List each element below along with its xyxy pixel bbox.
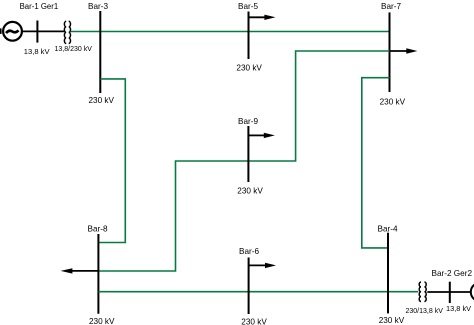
wire line B1: Bar-7 to Bar-9 — [248, 51, 389, 161]
bus Bar-7 — [389, 12, 391, 92]
svg-text:Bar-7: Bar-7 — [381, 2, 401, 11]
svg-text:Bar-2 Ger2: Bar-2 Ger2 — [432, 269, 473, 278]
bus Bar-1 — [36, 21, 38, 43]
transformer T1 winding left — [64, 21, 66, 43]
svg-text:230 kV: 230 kV — [379, 316, 405, 325]
bus Bar-5 — [248, 12, 250, 60]
bus Bar-6 — [248, 258, 250, 315]
svg-text:13,8 kV: 13,8 kV — [24, 47, 51, 56]
generator G2 (Ger2, clipped at right edge) — [471, 283, 474, 301]
svg-text:Bar-4: Bar-4 — [378, 225, 398, 234]
svg-text:230 kV: 230 kV — [236, 64, 262, 73]
transformer T2 winding left — [419, 282, 421, 302]
wire Bar-2 to generator G2 — [450, 291, 471, 293]
svg-text:230 kV: 230 kV — [89, 317, 115, 325]
bus Bar-9 — [247, 126, 249, 182]
wire line E: Bar-8 to transformer T2 through Bar-6 and Bar-4 — [98, 291, 418, 293]
bus Bar-3 — [99, 11, 101, 93]
wire line A: T1 to Bar-7 through Bar-3 and Bar-5 (230 kV) — [71, 31, 390, 33]
wire line C: Bar-3 to Bar-8 — [98, 79, 125, 243]
svg-text:Bar-1 Ger1: Bar-1 Ger1 — [20, 2, 59, 11]
transformer T1 winding right — [69, 21, 71, 43]
wire line B2: Bar-9 to Bar-8 — [98, 161, 248, 271]
svg-text:13,8/230 kV: 13,8/230 kV — [55, 46, 93, 53]
bus Bar-2 — [449, 282, 451, 303]
svg-text:Bar-8: Bar-8 — [88, 225, 108, 234]
svg-text:Bar-3: Bar-3 — [88, 2, 108, 11]
svg-text:Bar-5: Bar-5 — [238, 2, 258, 11]
svg-text:230/13,8 kV: 230/13,8 kV — [406, 308, 444, 315]
svg-text:13,8 kV: 13,8 kV — [446, 304, 471, 313]
svg-text:230 kV: 230 kV — [241, 318, 267, 325]
svg-text:Bar-6: Bar-6 — [239, 247, 259, 256]
wire G1 to transformer T1 — [22, 30, 65, 32]
svg-text:230 kV: 230 kV — [380, 97, 406, 106]
bus Bar-8 — [97, 234, 99, 314]
load arrow at Bar-5 — [249, 15, 276, 20]
svg-text:230 kV: 230 kV — [237, 187, 263, 196]
wire line D: Bar-7 to Bar-4 — [362, 78, 390, 248]
svg-text:Bar-9: Bar-9 — [238, 117, 258, 126]
generator G1 (Ger1) — [3, 22, 22, 41]
load arrow at Bar-6 — [249, 263, 276, 268]
load arrow at Bar-7 — [390, 48, 417, 53]
load arrow at Bar-9 — [249, 133, 275, 138]
wire T2 to Bar-2 — [427, 291, 450, 293]
left edge stub — [0, 28, 2, 34]
svg-text:230 kV: 230 kV — [89, 96, 115, 105]
transformer T2 winding right — [424, 282, 426, 302]
bus Bar-4 — [387, 233, 389, 314]
load arrow at Bar-8 (points left) — [61, 268, 98, 273]
